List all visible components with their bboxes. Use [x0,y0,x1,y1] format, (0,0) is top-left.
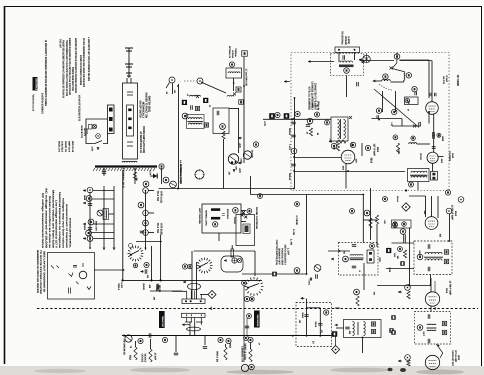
svg-text:4. PHONO: 4. PHONO [295,215,298,225]
IF callout r [365,145,370,150]
svg-text:3. FM: 3. FM [292,229,295,235]
xfmr lead mid [134,169,136,184]
ant strip leads [338,53,340,63]
heater callout 1 [86,196,92,202]
svg-text:FM OSC: FM OSC [419,153,422,160]
plug prong 3 [109,128,113,132]
12V arrow top [238,137,242,139]
osc callout [220,124,226,130]
osc feed arrow [331,258,334,260]
row1 wire dots [121,279,123,281]
svg-text:PONENT REPLACEMENT AND MAY NOT: PONENT REPLACEMENT AND MAY NOT NECESSARI… [62,40,65,98]
left phono rail [243,286,245,362]
shield sq K [269,113,275,119]
tone right stub [335,307,340,309]
balun drop wire [346,76,348,98]
rf tube drop [428,111,430,124]
svg-text:455X: 455X [341,166,344,171]
FM IF xfmr T3 [408,169,430,182]
preamp leads [241,210,246,212]
svg-text:PHONO CARTRIDGE: PHONO CARTRIDGE [255,207,258,229]
svg-text:AF TERMINAL VIEW: AF TERMINAL VIEW [179,164,182,185]
AM IF xfmr T2 [344,320,382,338]
function switch S1A [128,246,144,262]
svg-text:47K: 47K [372,292,375,296]
svg-text:TREBLE: TREBLE [117,283,120,290]
link box L2 [236,87,241,92]
svg-text:CONNECTED TO FILAMENT: CONNECTED TO FILAMENT [313,83,316,111]
tone top wire [307,307,321,309]
S1A drop 2 [160,235,162,280]
shield sq J [391,330,395,334]
svg-text:6BQ5: 6BQ5 [228,343,231,348]
AM RF transformer [187,115,205,129]
left channel caps [211,208,220,211]
T6 caps [428,314,430,318]
twisted pair wires [191,282,193,299]
svg-text:12 FM IF AMP: 12 FM IF AMP [448,281,451,296]
svg-text:PHONO MOTOR: PHONO MOTOR [80,125,83,138]
S1A hub [129,244,133,248]
12V arrow bottom [238,162,242,164]
bus jack [291,148,297,154]
page border top [4,6,482,8]
gang trimmers [127,92,133,146]
phono pin jack [231,249,234,257]
svg-text:AMP 10-4: AMP 10-4 [68,141,71,153]
gnd bar callout [159,164,164,169]
S1B top wire [194,250,255,252]
T1 arrow [349,116,352,119]
svg-text:115V: 115V [90,146,93,151]
mixer wire [392,125,421,127]
det callout [400,229,406,235]
speaker [79,271,87,279]
IF res h [336,140,346,143]
AM osc caps [352,245,356,247]
heater callout 3 [86,230,92,236]
main vertical bus [122,170,124,280]
svg-text:ANTENNA: ANTENNA [231,50,234,58]
rf coupling arc [379,84,393,90]
phono jack 1 [232,258,237,263]
svg-text:measurement of maximum: measurement of maximum [65,204,68,249]
ant dashed box [331,54,364,76]
volume control label [159,311,165,328]
svg-text:AND MAY NOT NECESSARILY BE FO: AND MAY NOT NECESSARILY BE FO [77,95,80,121]
svg-text:FM TUNER: FM TUNER [456,75,460,86]
svg-text:10.7: 10.7 [422,331,425,336]
svg-text:6AU6: 6AU6 [445,288,448,293]
B+ stubs [148,190,154,192]
svg-text:A12Y: A12Y [239,158,242,163]
ant coupling coil [190,95,201,96]
phase det symbol [363,55,371,63]
svg-text:4M: 4M [316,133,319,135]
svg-text:LA TERMINAL (S1 F): LA TERMINAL (S1 F) [121,166,124,188]
driver xfmr T5 [182,313,206,317]
junction dots [293,118,295,120]
limiter jack [405,355,411,361]
osc coil 2 [409,143,417,144]
driver shield oval [187,327,201,331]
svg-text:W50-A (H): W50-A (H) [215,351,218,362]
test point diamond TP1 [402,203,410,211]
svg-text:THE UNIT: THE UNIT [59,39,62,48]
svg-text:6BA6: 6BA6 [83,195,86,200]
row1 long wire [123,279,263,281]
svg-text:SWITCH SEQUENCE 1: SWITCH SEQUENCE 1 [284,245,287,266]
svg-text:470K: 470K [350,142,353,147]
svg-text:Line voltage maintained at 117: Line voltage maintained at 117 V [55,200,58,248]
svg-text:470K: 470K [378,257,381,262]
svg-text:NORMAL LEVEL: NORMAL LEVEL [205,210,208,227]
ant box letter [195,106,199,110]
link box L [242,51,248,57]
rf shield box [405,97,419,105]
audio bus arrow [122,335,126,337]
svg-text:6428: 6428 [441,136,444,141]
FM mixer tube V3 [427,152,438,163]
svg-text:Nominal tolerance on compone: Nominal tolerance on compone [58,192,61,249]
svg-text:(GANG): (GANG) [142,283,145,290]
det caps [404,234,406,238]
osc resistor [222,131,225,139]
heater rail [89,192,91,248]
rf callout k1 [412,87,417,92]
svg-text:+12V: +12V [263,121,266,126]
svg-text:GM CONV: GM CONV [250,150,253,158]
output xfmr T4 [182,299,205,304]
T6 coils [427,323,436,326]
svg-text:RATIO: RATIO [418,251,421,257]
T2 lead [362,338,364,354]
svg-text:+12V: +12V [383,220,386,225]
svg-text:ON-OFF SWITCH: ON-OFF SWITCH [139,101,142,119]
ant cap [191,105,193,109]
svg-text:CIRCUITRACE: CIRCUITRACE [34,78,37,90]
ratio det boxes [444,250,448,254]
fuse sym [89,125,93,130]
svg-text:★ PROPERTY STANDARD NOTATION S: ★ PROPERTY STANDARD NOTATION SCHEMATIC U… [44,40,48,106]
svg-text:"Trademark" Sams & Co., Inc. 1: "Trademark" Sams & Co., Inc. 1962 [31,94,34,111]
heater callout 4 [87,236,93,242]
pilot lamp [97,210,103,216]
phono switch S1C [245,277,264,296]
svg-text:FM MIXER: FM MIXER [448,151,451,161]
svg-text:RF AMP: RF AMP [445,75,448,82]
rf path bend [392,60,397,69]
svg-text:CATHODE: CATHODE [140,354,143,363]
rf caps top [430,93,432,97]
det jack [446,208,452,214]
loop antenna body [123,83,138,159]
osc cap [217,111,219,115]
mix resistor [396,143,399,154]
FM tuner dashed box [291,53,449,191]
svg-text:6AU6: 6AU6 [454,211,457,216]
audio bus [122,335,334,337]
mixer stub [438,156,443,158]
agc diagonal [374,89,419,128]
bottom rail [159,188,295,190]
svg-text:(PIN 4): (PIN 4) [316,101,319,110]
power xfmr primary coil [122,161,137,162]
T6 lead [436,344,443,358]
osc module box [213,108,229,134]
row2 resistor 1 [134,347,137,360]
svg-text:6AV6: 6AV6 [457,355,460,360]
AM ant jack [169,77,175,83]
svg-text:POWER AMP (LATE RUN): POWER AMP (LATE RUN) [142,126,145,153]
bypass cap [306,125,310,127]
svg-text:POSITION. VIEW: POSITION. VIEW [281,248,284,265]
T3 drop [417,182,419,191]
switch callout [294,268,300,274]
AM osc jack [197,78,203,84]
rf L coil [382,80,391,81]
svg-text:100mmf: 100mmf [288,173,291,180]
bus cap 1 [291,122,295,124]
svg-text:TREBLE CONT: TREBLE CONT [161,316,164,328]
B+ squares rail [263,118,331,120]
svg-text:● USE PARTS LIST FOR ALTERNATE: ● USE PARTS LIST FOR ALTERNATE VALUES [87,37,90,81]
speaker enclosure [48,253,95,300]
left channel box [202,204,241,233]
chassis left post [250,176,252,195]
shield sq I [391,315,395,319]
plug prong 1 [109,108,113,112]
shield sq G [332,331,338,337]
svg-text:SEE LAYOUT DIAGRAM ID: SEE LAYOUT DIAGRAM ID [43,251,46,292]
fm if2 resistor [407,291,410,299]
svg-text:ANTENNA: ANTENNA [344,36,347,45]
det bus [430,275,432,286]
T2 caps [345,327,349,329]
function switch S1B [197,258,213,274]
row2 extra 2 [204,336,206,346]
T6 callout [417,325,423,331]
gang-to-jack wire [166,83,170,89]
heater left stubs [83,190,86,192]
spk terminal 2 [51,263,83,294]
tuner edge jacks [445,190,450,195]
svg-text:GA: GA [165,92,168,95]
tone callout [324,310,329,315]
tone dashed box [296,303,332,347]
test point diamond TP2 [208,291,216,299]
AC receptacle body [108,105,115,134]
xfmr box letter [204,123,208,127]
tuner top leads [396,53,398,60]
rf in jack [359,59,362,61]
rail callout a [275,112,280,117]
S1B callouts [182,264,187,269]
svg-text:HTR A (A): HTR A (A) [160,191,163,203]
bus cap 3 [291,164,295,166]
det tube leads [425,196,427,217]
svg-text:6BA6: 6BA6 [376,147,379,152]
row2 resistor 4 [249,349,252,362]
svg-text:SHOWN ON SCHEMATIC DIAGRAM: SHOWN ON SCHEMATIC DIAGRAM [79,55,82,85]
phono jack 2 [237,258,241,262]
shield sq H [389,328,393,332]
svg-text:1B0mf: 1B0mf [301,313,304,319]
conv tube V1 [228,154,238,164]
row2 callout 3 [218,337,223,342]
svg-text:455X: 455X [440,159,443,164]
mixer stem [433,115,435,153]
phono callout [247,209,252,214]
IF amp tube V4 [341,150,355,164]
cartridge X marks [242,211,245,214]
switch bus [306,195,308,275]
AM conv transistor [243,151,251,159]
V4 cathode lead [345,164,347,189]
row2 callout 5 [248,337,253,342]
svg-text:TO ROYCE SYSTEM LOCATED: TO ROYCE SYSTEM LOCATED [39,250,42,294]
phono loop arrow [224,260,227,262]
svg-text:250mf: 250mf [314,322,317,328]
tone control label [254,311,260,328]
AM IF xfmr T1 [331,117,348,141]
bypass res [309,128,312,136]
ch1 wire [172,290,187,292]
conv pinout view [195,170,204,179]
spk lead [94,269,123,271]
right mid stubs [363,219,377,221]
rf top feed [400,60,433,62]
det area wires [409,195,426,197]
svg-text:SER 10-48: SER 10-48 [71,141,74,153]
heater jack J1 [87,187,93,193]
pilot coil box [103,209,109,220]
svg-text:MECHANICALLY: MECHANICALLY [142,102,145,118]
rf osc coil vert [404,72,405,81]
svg-text:TO A 750: TO A 750 [156,191,159,202]
svg-text:+12V: +12V [234,166,237,171]
rail junction [177,188,179,190]
motor sym 2 [96,134,101,139]
svg-text:6HA5: 6HA5 [451,153,454,158]
svg-text:LEFT CHANNEL: LEFT CHANNEL [198,208,201,225]
driver xfmr core [185,322,203,331]
heater row ties [93,190,114,192]
AM osc callout [343,256,349,262]
S1A callouts [133,263,137,267]
svg-text:10K: 10K [396,256,399,260]
tone branch 2 [319,308,321,336]
B+ jack [143,188,149,194]
svg-text:TERMINAL: TERMINAL [234,48,237,57]
svg-text:+12V: +12V [238,168,241,173]
svg-text:SEL: SEL [135,178,138,182]
to tuner wire [360,60,395,62]
svg-text:2. AM: 2. AM [289,239,292,245]
ant arrow [308,61,314,63]
AM osc slug box [367,250,374,263]
IF wire 171 [294,171,405,173]
svg-text:60 CY: 60 CY [85,129,88,135]
svg-text:4.7 mmf NPO GM: 4.7 mmf NPO GM [245,69,248,87]
shield sq E [272,272,277,277]
svg-text:3K: 3K [305,132,308,135]
spk terminal 1 [69,273,92,290]
T3 slug box [431,172,438,181]
svg-text:A-151: A-151 [120,282,123,288]
shield sq A [182,100,187,105]
balun coil [340,61,352,63]
AM conv callout [253,142,258,147]
row2 callout 4 [226,338,231,343]
center vertical bus [294,98,296,189]
left channel callout [213,222,218,227]
IF wire 157 [294,157,341,159]
B+ column [145,190,147,250]
svg-text:BALANCE: BALANCE [144,354,147,363]
switch wire [242,273,307,275]
shield sq B [203,98,208,103]
phono chassis box [236,215,255,246]
ratio det xfmr dashed [414,241,452,275]
phono rail parts [247,314,252,319]
rail callout b [295,111,300,116]
det small box [392,220,412,228]
conv osc coil [227,95,234,96]
svg-text:CATHODE (1) INTERNALLY: CATHODE (1) INTERNALLY [311,81,314,110]
page border left [4,6,6,364]
heater callout 2 [88,219,94,225]
shield sq C [400,261,404,265]
T1 res below [336,143,339,151]
dashed coupling [184,80,197,82]
ext ant coil box [226,68,242,78]
svg-text:AC voltage measured of 20,000: AC voltage measured of 20,000 [45,188,48,249]
bottom scan band [0,366,484,375]
heater cap 1 [88,204,92,206]
tone bus [272,335,334,337]
gang section window [127,105,134,136]
mix cap [419,122,421,126]
mixer cap pair [433,132,435,136]
svg-text:FUNCTION SWITCH (S1A): FUNCTION SWITCH (S1A) [275,240,278,265]
AM osc coil [350,254,363,257]
svg-text:AC RECEPTACLE ON: AC RECEPTACLE ON [139,131,142,153]
driver arrow [182,324,185,326]
motor sym [92,124,97,129]
page border right [481,6,483,372]
interlock switch [95,141,102,144]
bus top tie [294,97,296,99]
svg-text:FM EXTERNAL: FM EXTERNAL [341,31,344,45]
svg-text:100mmf: 100mmf [396,196,399,203]
B+ jack 3 [143,230,149,236]
svg-text:NOTE: ALL NUMBERED: NOTE: ALL NUMBERED [308,87,311,110]
svg-text:AF AMP: AF AMP [153,353,156,361]
tuner in callout [394,54,400,60]
svg-text:S NOTATION SCHEMATIC: S NOTATION SCHEMATIC [41,93,44,114]
svg-text:SWITCH (S1B): SWITCH (S1B) [148,96,151,112]
svg-text:6BQ5: 6BQ5 [128,355,131,360]
svg-text:(LATE): (LATE) [347,37,350,45]
shield sq L [284,113,290,119]
FM IF2 tube V7 [425,292,439,306]
xfmr lead left [103,169,105,176]
pilot tube [314,265,321,272]
transistor Q bottom [170,181,177,188]
svg-text:measurements.: measurements. [68,218,71,248]
S1A drop 1 [151,246,153,280]
